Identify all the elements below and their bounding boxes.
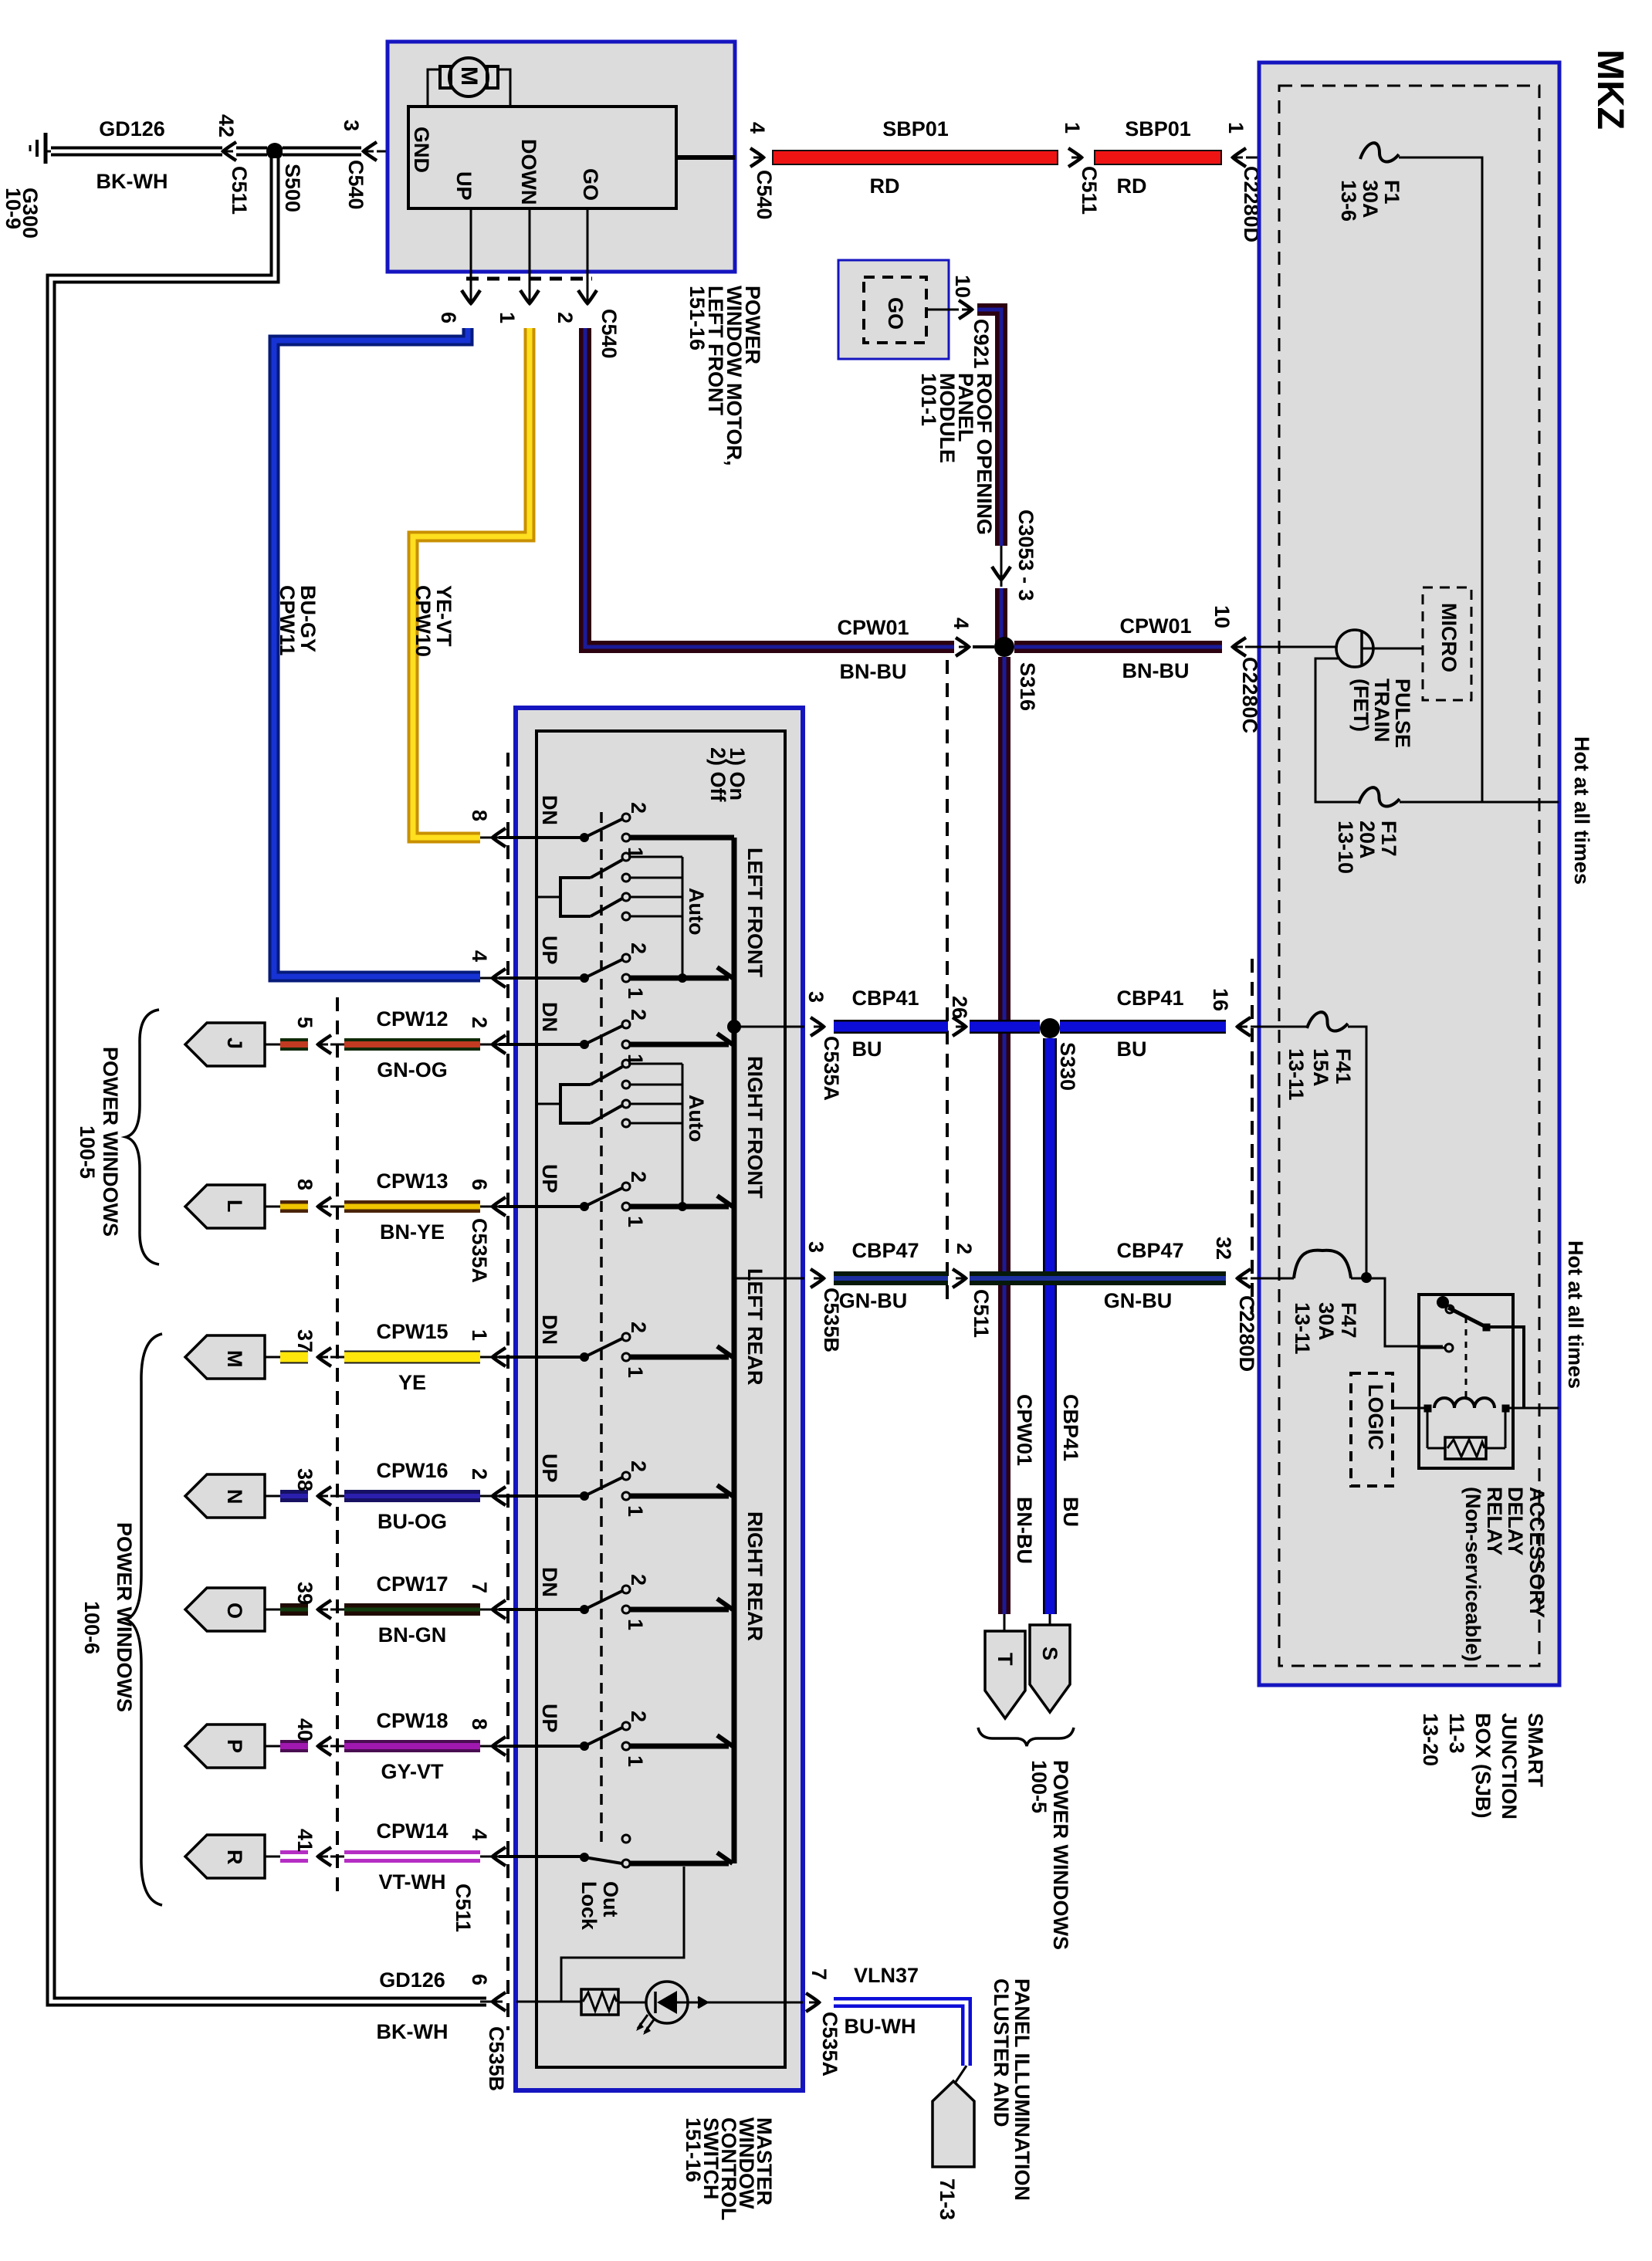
svg-text:32: 32 bbox=[1212, 1237, 1235, 1260]
wire CPW01 BN-BU S316 down to T connector bbox=[998, 657, 1010, 1614]
svg-text:Auto: Auto bbox=[685, 888, 708, 935]
lock out switch bbox=[580, 1853, 589, 1862]
wire S500 to C540 bbox=[283, 147, 361, 157]
switch pin 1 arrow bbox=[493, 1348, 506, 1366]
svg-text:4: 4 bbox=[746, 122, 769, 134]
lock out contact to bus bbox=[630, 1861, 729, 1867]
wire CPW17 BN-GN bbox=[344, 1603, 480, 1616]
svg-text:2: 2 bbox=[627, 1009, 650, 1020]
svg-text:6: 6 bbox=[468, 1974, 491, 1985]
switch left rear UP pivot and arm bbox=[580, 1491, 589, 1501]
bus junction to C535A pin 3 bbox=[727, 1020, 741, 1034]
svg-text:C511: C511 bbox=[970, 1289, 993, 1338]
svg-text:CBP41: CBP41 bbox=[851, 987, 919, 1010]
connector C540 pin 3 arrow bbox=[364, 142, 377, 161]
wire CPW01 BN-BU S316 to SJB pin 10 bbox=[1014, 641, 1222, 653]
brace power windows 100-6 left bbox=[126, 1334, 162, 1905]
svg-text:3: 3 bbox=[340, 120, 363, 131]
svg-text:CPW15: CPW15 bbox=[376, 1320, 448, 1343]
svg-text:POWER WINDOWS: POWER WINDOWS bbox=[1049, 1760, 1072, 1950]
svg-text:UP: UP bbox=[538, 1454, 561, 1483]
svg-text:100-6: 100-6 bbox=[80, 1601, 103, 1654]
svg-text:C535B: C535B bbox=[485, 2026, 508, 2091]
relay parallel resistor bbox=[1427, 1412, 1429, 1448]
lockout link to illumination bbox=[561, 1867, 684, 2002]
right front DN contact to bus bbox=[630, 1042, 729, 1048]
svg-text:100-5: 100-5 bbox=[1027, 1760, 1051, 1813]
bus exit to C535B pin 3 bbox=[734, 1278, 804, 1280]
svg-text:6: 6 bbox=[468, 1179, 491, 1190]
pulse train FET driver circle bbox=[1336, 630, 1373, 667]
svg-text:2: 2 bbox=[627, 943, 650, 954]
switch right front UP row line bbox=[499, 1205, 584, 1208]
switch left rear DN pivot and arm bbox=[580, 1352, 589, 1362]
connector C511 pin 42 arrow bbox=[223, 142, 236, 161]
relay fixed contact bbox=[1445, 1344, 1453, 1352]
svg-text:GY-VT: GY-VT bbox=[381, 1760, 444, 1783]
svg-text:J: J bbox=[223, 1037, 246, 1049]
svg-text:GND: GND bbox=[410, 127, 433, 173]
svg-text:Hot at all times: Hot at all times bbox=[1570, 736, 1593, 885]
connector pin L bbox=[185, 1185, 265, 1228]
left front auto switch upper bbox=[591, 860, 622, 878]
svg-text:2) Off: 2) Off bbox=[706, 747, 730, 803]
connector C2280C pin 10 arrow bbox=[1233, 638, 1246, 656]
svg-text:6: 6 bbox=[437, 312, 460, 323]
svg-text:CPW14: CPW14 bbox=[376, 1819, 448, 1843]
svg-text:15A: 15A bbox=[1309, 1048, 1332, 1087]
roof opening panel module box bbox=[838, 260, 949, 359]
right front UP contact to bus bbox=[630, 1204, 729, 1210]
svg-text:DOWN: DOWN bbox=[517, 139, 540, 205]
connector pin J bbox=[185, 1023, 265, 1066]
wire CPW14 VT-WH bbox=[344, 1850, 480, 1863]
svg-text:GD126: GD126 bbox=[99, 117, 165, 140]
svg-text:BOX (SJB): BOX (SJB) bbox=[1471, 1713, 1495, 1819]
connector C535B pin 3 arrow right bbox=[811, 1269, 824, 1288]
switch right front DN pivot and arm bbox=[580, 1040, 589, 1049]
illumination resistor bbox=[581, 1989, 618, 2015]
connector C511 pin 41 arrow bbox=[318, 1847, 331, 1866]
connector pin M bbox=[185, 1335, 265, 1379]
svg-text:CPW13: CPW13 bbox=[376, 1169, 448, 1193]
svg-text:YE: YE bbox=[398, 1371, 426, 1394]
left front UP contact to bus bbox=[630, 976, 729, 981]
svg-text:42: 42 bbox=[215, 114, 238, 137]
wire VLN37 BU-WH bbox=[834, 2002, 966, 2066]
wire GD126 BK-WH ground to S500 bbox=[51, 147, 222, 157]
svg-text:2: 2 bbox=[553, 312, 577, 323]
svg-text:C535A: C535A bbox=[820, 1036, 843, 1101]
fuse F1 30A bbox=[1360, 143, 1399, 161]
motor pin stubs UP DOWN GO bbox=[470, 208, 472, 301]
svg-text:RD: RD bbox=[1117, 174, 1147, 198]
svg-text:S500: S500 bbox=[281, 164, 304, 212]
svg-text:39: 39 bbox=[293, 1582, 317, 1605]
switch left rear UP row line bbox=[499, 1494, 584, 1498]
switch right rear DN pivot and arm bbox=[580, 1605, 589, 1614]
svg-text:8: 8 bbox=[468, 810, 491, 821]
svg-text:BU: BU bbox=[852, 1037, 882, 1061]
wire stub GN-OG bbox=[280, 1038, 308, 1051]
switch pin 4 arrow bbox=[493, 969, 506, 987]
switch right front UP pivot and arm bbox=[580, 1202, 589, 1211]
svg-text:UP: UP bbox=[452, 171, 476, 201]
wire stub BN-YE bbox=[280, 1200, 308, 1213]
switch right front DN row line bbox=[499, 1043, 584, 1046]
module pin line bbox=[926, 309, 959, 311]
svg-text:BN-BU: BN-BU bbox=[840, 660, 907, 683]
svg-text:RIGHT REAR: RIGHT REAR bbox=[743, 1511, 767, 1641]
illumination LED bbox=[646, 1982, 688, 2023]
switch left front UP pivot and arm bbox=[580, 973, 589, 983]
svg-text:151-16: 151-16 bbox=[686, 286, 709, 350]
svg-text:Lock: Lock bbox=[577, 1881, 601, 1931]
svg-text:C540: C540 bbox=[753, 170, 776, 220]
svg-text:8: 8 bbox=[468, 1718, 491, 1730]
svg-text:3: 3 bbox=[804, 991, 828, 1003]
switch pin 8 arrow bbox=[493, 1737, 506, 1755]
svg-text:4: 4 bbox=[468, 950, 491, 962]
svg-text:26: 26 bbox=[948, 996, 971, 1019]
svg-text:R: R bbox=[223, 1850, 246, 1865]
wire SBP01 RD segment 2 bbox=[1094, 150, 1222, 165]
svg-text:CBP47: CBP47 bbox=[851, 1239, 919, 1262]
svg-text:41: 41 bbox=[293, 1829, 317, 1852]
wire CPW16 BU-OG bbox=[344, 1490, 480, 1502]
svg-text:30A: 30A bbox=[1315, 1302, 1338, 1341]
wire F47 to relay contact bbox=[1351, 1278, 1443, 1346]
right front auto switch lower bbox=[591, 1105, 622, 1123]
svg-text:Auto: Auto bbox=[685, 1095, 708, 1142]
switch pin 6 arrow bbox=[493, 1197, 506, 1216]
connector pin N bbox=[185, 1474, 265, 1518]
svg-text:CPW17: CPW17 bbox=[376, 1572, 448, 1596]
svg-text:F47: F47 bbox=[1337, 1302, 1360, 1339]
switch pin 2 arrow bbox=[493, 1487, 506, 1505]
svg-text:UP: UP bbox=[538, 936, 561, 965]
connector pin R bbox=[185, 1835, 265, 1878]
svg-text:CBP41: CBP41 bbox=[1116, 987, 1183, 1010]
micro dashed box bbox=[1423, 587, 1471, 700]
svg-text:CPW11: CPW11 bbox=[276, 585, 299, 656]
svg-text:1: 1 bbox=[624, 1505, 647, 1517]
connector C511 pin 5 arrow bbox=[318, 1035, 331, 1054]
dashed connector plane C2280 right bbox=[1251, 959, 1254, 1312]
svg-text:Out: Out bbox=[599, 1881, 622, 1917]
svg-text:LOGIC: LOGIC bbox=[1364, 1384, 1387, 1450]
svg-text:BN-BU: BN-BU bbox=[1122, 659, 1190, 682]
connector S bbox=[1049, 1614, 1051, 1625]
wire CPW15 YE bbox=[344, 1351, 480, 1364]
svg-text:MKZ: MKZ bbox=[1589, 49, 1630, 130]
splice S500 bbox=[266, 143, 283, 160]
switch pin 2 arrow bbox=[493, 1035, 506, 1054]
svg-text:10: 10 bbox=[1210, 605, 1234, 628]
dashed connector plane C535 left bbox=[506, 753, 509, 2030]
svg-text:P: P bbox=[223, 1739, 246, 1753]
motor M symbol bbox=[449, 58, 488, 96]
dashed connector plane C511 middle bbox=[946, 660, 949, 1301]
connector C540 pin 4 arrow bbox=[750, 148, 763, 167]
svg-text:BU-WH: BU-WH bbox=[845, 2015, 916, 2038]
cluster illumination connector bbox=[933, 2081, 974, 2167]
relay movable contact bbox=[1437, 1296, 1449, 1308]
logic dashed box bbox=[1351, 1373, 1393, 1486]
svg-text:GD126: GD126 bbox=[379, 1968, 445, 1992]
svg-text:GN-BU: GN-BU bbox=[839, 1289, 908, 1312]
svg-text:38: 38 bbox=[293, 1468, 317, 1491]
svg-text:1: 1 bbox=[624, 1619, 647, 1630]
wire C540 to motor GND pin bbox=[377, 151, 408, 153]
svg-text:T: T bbox=[994, 1653, 1017, 1666]
svg-text:13-11: 13-11 bbox=[1285, 1048, 1308, 1101]
switch left front UP row line bbox=[499, 976, 584, 980]
wire CBP47 GN-BU switch to C511 bbox=[834, 1271, 948, 1285]
svg-text:13-11: 13-11 bbox=[1291, 1302, 1314, 1355]
switch left rear DN row line bbox=[499, 1356, 584, 1359]
svg-text:CPW01: CPW01 bbox=[837, 616, 909, 639]
wire CBP41 BU switch to splice bbox=[834, 1020, 948, 1034]
svg-text:C511: C511 bbox=[1078, 166, 1101, 215]
left front auto vertical link bbox=[682, 857, 684, 978]
svg-text:CLUSTER AND: CLUSTER AND bbox=[990, 1978, 1013, 2127]
svg-text:4: 4 bbox=[468, 1829, 491, 1840]
svg-text:UP: UP bbox=[538, 1704, 561, 1733]
wire into SJB to fuse F1 bbox=[1246, 157, 1360, 159]
wire F1 to hot bus bbox=[1399, 157, 1482, 802]
svg-text:CPW16: CPW16 bbox=[376, 1459, 448, 1482]
svg-text:RD: RD bbox=[870, 174, 900, 198]
svg-text:M: M bbox=[456, 66, 482, 86]
svg-text:DN: DN bbox=[538, 1567, 561, 1597]
svg-text:BU: BU bbox=[1117, 1037, 1147, 1061]
right front auto vertical link bbox=[682, 1064, 684, 1207]
svg-text:C511: C511 bbox=[228, 166, 251, 215]
wire CPW01 BN-BU from roof module down bbox=[977, 310, 1001, 546]
wire CBP41 BU S330 down to S connector bbox=[1043, 1038, 1057, 1614]
splice arrow 4 bbox=[956, 638, 969, 656]
dashed connector line C540 under motor bbox=[466, 277, 592, 281]
wire F17 to hot at all times bbox=[1400, 801, 1559, 804]
accessory delay relay box bbox=[1419, 1295, 1513, 1468]
svg-text:1: 1 bbox=[1224, 122, 1247, 134]
svg-text:20A: 20A bbox=[1356, 821, 1379, 859]
wire SBP01 RD segment 1 bbox=[772, 150, 1058, 165]
wire F41 to F47 node bbox=[1348, 1027, 1366, 1278]
svg-text:7: 7 bbox=[807, 1968, 831, 1980]
svg-text:S: S bbox=[1038, 1647, 1061, 1660]
wire to illumination connector bbox=[954, 2066, 966, 2084]
brace power windows 100-5 bottom bbox=[978, 1728, 1074, 1746]
wire CPW12 GN-OG bbox=[344, 1038, 480, 1051]
svg-text:C2280C: C2280C bbox=[1238, 657, 1261, 733]
connector C511 pin 1 arrow bbox=[1068, 148, 1082, 167]
svg-text:L: L bbox=[223, 1200, 246, 1213]
svg-text:151-16: 151-16 bbox=[682, 2117, 705, 2182]
connector C3053-3 arrow bbox=[1000, 546, 1003, 587]
switch left front DN row line bbox=[499, 836, 584, 839]
svg-text:2: 2 bbox=[627, 1461, 650, 1472]
svg-text:DN: DN bbox=[538, 1002, 561, 1032]
connector C535A pin 3 arrow right bbox=[811, 1017, 824, 1036]
connector T bbox=[1004, 1614, 1006, 1631]
relay coil bbox=[1424, 1405, 1431, 1412]
svg-text:13-10: 13-10 bbox=[1334, 821, 1357, 874]
switch right rear UP row line bbox=[499, 1745, 584, 1748]
switch left front DN pivot and arm bbox=[580, 833, 589, 842]
svg-text:RELAY: RELAY bbox=[1483, 1487, 1506, 1555]
svg-text:5: 5 bbox=[293, 1017, 317, 1028]
svg-text:F17: F17 bbox=[1377, 821, 1400, 857]
wire CPW01 BN-BU from motor GO pin bbox=[585, 328, 954, 647]
svg-text:1: 1 bbox=[624, 1216, 647, 1227]
svg-text:DELAY: DELAY bbox=[1504, 1487, 1527, 1555]
svg-text:1: 1 bbox=[468, 1329, 491, 1341]
svg-text:YE-VT: YE-VT bbox=[432, 585, 455, 647]
svg-text:BU-GY: BU-GY bbox=[296, 585, 320, 652]
svg-text:M: M bbox=[223, 1350, 246, 1368]
svg-text:Hot at all times: Hot at all times bbox=[1564, 1241, 1587, 1389]
svg-text:71-3: 71-3 bbox=[936, 2178, 959, 2220]
switch pin 6 C535B arrow bbox=[493, 1992, 506, 2011]
svg-text:10-9: 10-9 bbox=[2, 188, 25, 229]
wire into F47 bbox=[1251, 1278, 1294, 1280]
svg-text:TRAIN: TRAIN bbox=[1370, 679, 1393, 743]
svg-text:BU-OG: BU-OG bbox=[377, 1510, 447, 1533]
left front auto bracket bbox=[560, 878, 591, 916]
wire FET to micro bbox=[1362, 648, 1423, 650]
svg-text:CPW01: CPW01 bbox=[1013, 1394, 1036, 1466]
svg-text:BN-GN: BN-GN bbox=[378, 1623, 447, 1647]
splice S316 bbox=[994, 637, 1014, 657]
wire CPW18 GY-VT bbox=[344, 1740, 480, 1752]
svg-text:2: 2 bbox=[953, 1243, 976, 1254]
svg-text:C535A: C535A bbox=[468, 1218, 491, 1283]
svg-text:13-20: 13-20 bbox=[1419, 1713, 1442, 1766]
smart junction box SJB bbox=[1259, 63, 1559, 1685]
svg-text:BK-WH: BK-WH bbox=[96, 170, 168, 193]
SJB pin 32 arrow bbox=[1237, 1269, 1251, 1288]
wire stub BU-OG bbox=[280, 1490, 308, 1502]
connector pin P bbox=[185, 1725, 265, 1768]
svg-text:1: 1 bbox=[624, 1366, 647, 1378]
left front DN contact to bus bbox=[630, 835, 734, 841]
svg-text:N: N bbox=[223, 1489, 246, 1505]
svg-text:30A: 30A bbox=[1359, 180, 1382, 218]
wire CPW13 BN-YE bbox=[344, 1200, 480, 1213]
connector C511 pin 38 arrow bbox=[318, 1487, 331, 1505]
svg-text:8: 8 bbox=[293, 1179, 317, 1190]
svg-text:O: O bbox=[223, 1603, 246, 1619]
svg-text:11-3: 11-3 bbox=[1445, 1713, 1468, 1754]
wire C511 to S500 bbox=[236, 147, 267, 157]
svg-text:1: 1 bbox=[496, 312, 519, 323]
switch inner box bbox=[537, 731, 785, 2067]
pin arrows down bbox=[462, 290, 480, 303]
svg-text:SMART: SMART bbox=[1524, 1713, 1547, 1787]
svg-text:CPW10: CPW10 bbox=[411, 585, 435, 657]
svg-text:SBP01: SBP01 bbox=[882, 117, 949, 140]
svg-text:GN-BU: GN-BU bbox=[1104, 1289, 1173, 1312]
svg-text:2: 2 bbox=[468, 1017, 491, 1028]
SJB pin 16 arrow bbox=[1237, 1017, 1251, 1036]
left front auto switch lower bbox=[591, 899, 622, 916]
motor output wire to pin 4 bbox=[676, 155, 735, 160]
svg-text:BK-WH: BK-WH bbox=[377, 2020, 449, 2043]
svg-text:LEFT REAR: LEFT REAR bbox=[743, 1268, 767, 1386]
LED wire to pin 7 with splice arrow bbox=[688, 2002, 803, 2004]
connector C511 pin 37 arrow bbox=[318, 1348, 331, 1366]
svg-text:10: 10 bbox=[951, 275, 974, 298]
svg-text:2: 2 bbox=[627, 1711, 650, 1722]
svg-text:POWER WINDOWS: POWER WINDOWS bbox=[113, 1522, 136, 1712]
svg-text:GO: GO bbox=[884, 297, 907, 330]
svg-text:(Non-serviceable): (Non-serviceable) bbox=[1461, 1487, 1484, 1662]
fuse F41 15A bbox=[1307, 1012, 1348, 1031]
svg-text:C540: C540 bbox=[597, 309, 621, 359]
svg-text:UP: UP bbox=[538, 1164, 561, 1193]
svg-text:SBP01: SBP01 bbox=[1125, 117, 1191, 140]
svg-text:C535A: C535A bbox=[818, 2012, 841, 2077]
svg-text:F1: F1 bbox=[1380, 180, 1403, 205]
svg-text:40: 40 bbox=[293, 1718, 317, 1741]
svg-text:2: 2 bbox=[627, 802, 650, 814]
wire CPW11 BU-GY motor to pin 4 bbox=[274, 328, 480, 976]
fuse F47 30A bbox=[1294, 1251, 1351, 1278]
svg-text:CPW12: CPW12 bbox=[376, 1007, 448, 1031]
connector C2280D pin 1 arrow bbox=[1233, 148, 1246, 167]
svg-text:PULSE: PULSE bbox=[1391, 679, 1414, 748]
svg-text:F41: F41 bbox=[1332, 1048, 1355, 1085]
wire CPW01 to splice S316 bbox=[995, 588, 1007, 647]
svg-text:C921: C921 bbox=[970, 319, 993, 369]
svg-text:S316: S316 bbox=[1016, 662, 1039, 711]
relay link dashed bbox=[1465, 1317, 1468, 1399]
wire CBP41 BU to S330 bbox=[970, 1020, 1040, 1034]
svg-text:2: 2 bbox=[468, 1468, 491, 1480]
svg-text:CBP47: CBP47 bbox=[1116, 1239, 1183, 1262]
wire CBP47 GN-BU to SJB pin 32 bbox=[970, 1271, 1226, 1285]
dashed connector plane C511 left bbox=[336, 997, 339, 1895]
wire CBP41 BU S330 to SJB pin 16 bbox=[1060, 1020, 1226, 1034]
svg-text:C511: C511 bbox=[452, 1884, 475, 1932]
fuse F17 20A bbox=[1359, 787, 1400, 806]
switch right rear UP pivot and arm bbox=[580, 1741, 589, 1751]
connector pin O bbox=[185, 1588, 265, 1631]
svg-text:VT-WH: VT-WH bbox=[379, 1870, 446, 1894]
splice arrow 2 C511 bbox=[953, 1269, 966, 1288]
svg-text:ACCESSORY: ACCESSORY bbox=[1525, 1487, 1549, 1618]
motor inner body box bbox=[408, 107, 676, 208]
wire S500 down-left to page bottom (BK-WH) bbox=[51, 158, 486, 2002]
relay armature to hot line bbox=[1489, 1327, 1524, 1408]
switch pin 7 arrow bbox=[493, 1600, 506, 1619]
svg-text:1: 1 bbox=[624, 987, 647, 999]
connector C921 pin 10 arrow bbox=[959, 300, 972, 319]
svg-text:13-6: 13-6 bbox=[1337, 180, 1360, 222]
svg-text:2: 2 bbox=[627, 1574, 650, 1586]
ground G300 symbol bbox=[44, 133, 48, 164]
svg-text:C540: C540 bbox=[344, 160, 367, 210]
connector C511 pin 40 arrow bbox=[318, 1737, 331, 1755]
switch right rear DN row line bbox=[499, 1608, 584, 1611]
svg-text:DN: DN bbox=[538, 795, 561, 825]
svg-text:JUNCTION: JUNCTION bbox=[1498, 1713, 1521, 1819]
svg-text:BN-YE: BN-YE bbox=[380, 1220, 445, 1244]
wire stub GY-VT bbox=[280, 1740, 308, 1752]
connector C511 pin 8 arrow bbox=[318, 1197, 331, 1216]
